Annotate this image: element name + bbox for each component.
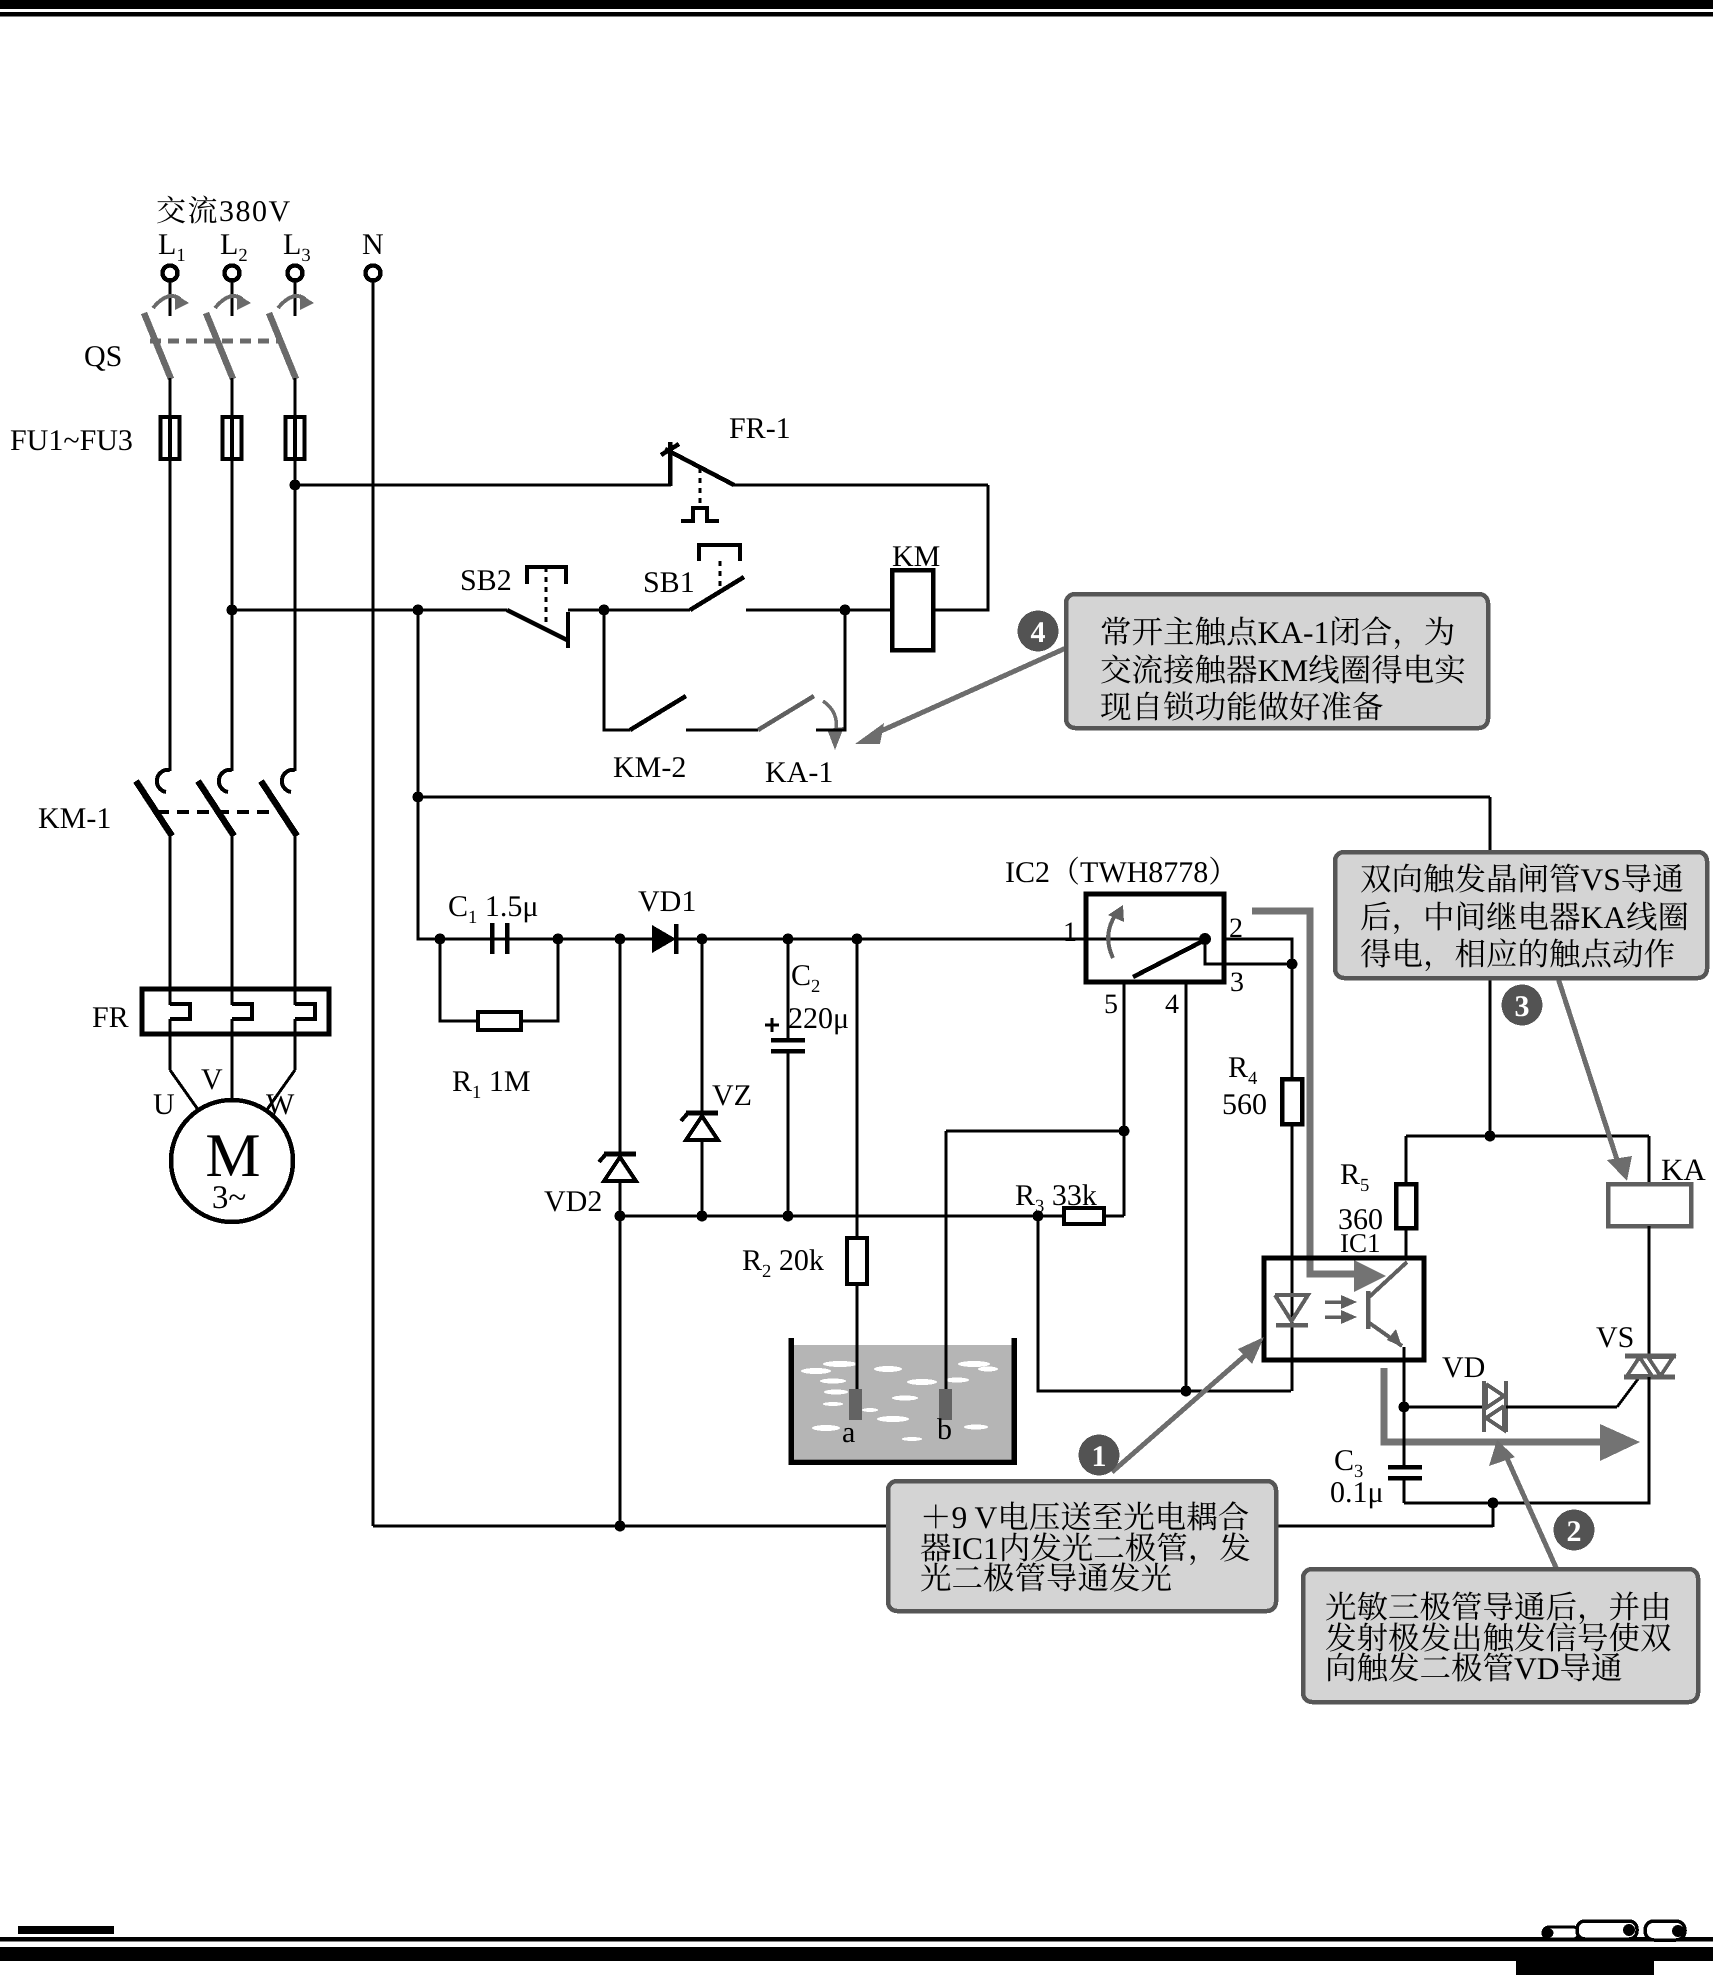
svg-text:SB2: SB2: [460, 564, 512, 597]
svg-text:560: 560: [1222, 1088, 1267, 1121]
svg-text:VD: VD: [1442, 1351, 1485, 1384]
resistor R4: [1282, 1079, 1302, 1124]
capacitor C1: [490, 923, 495, 954]
wire SB1 to KM coil: [746, 609, 892, 612]
wire KM-1 pole 2 to FR: [231, 835, 234, 990]
node pins 2-3: [1287, 959, 1298, 970]
pushbutton SB2 (NC): [527, 567, 566, 584]
svg-text:向触发二极管VD导通: 向触发二极管VD导通: [1325, 1644, 1623, 1689]
wire L3 terminal to QS: [294, 280, 297, 316]
contactor KM-1 pole 1: [157, 770, 170, 792]
motor lead W diagonal: [266, 1070, 295, 1111]
wire FR to motor lead 3: [294, 1034, 297, 1070]
svg-text:2: 2: [1567, 1515, 1582, 1548]
switch QS pole 2 blade: [206, 313, 233, 379]
page bottom thin rule: [0, 1937, 1713, 1942]
node C2 rail: [783, 1211, 794, 1222]
svg-text:交流380V: 交流380V: [156, 186, 292, 230]
relay coil KA: [1608, 1184, 1691, 1226]
node C3 bottom line: [1488, 1498, 1499, 1509]
contact KM-2 blade (NO): [630, 696, 686, 730]
wire left rail corner to C1: [418, 937, 557, 939]
wire FR to motor lead 1: [169, 1034, 172, 1070]
resistor R2 branch: [856, 939, 859, 1238]
wire IC2 pin3: [1224, 963, 1292, 966]
diac VD: [1482, 1381, 1486, 1432]
QS pole 3 rotation arrow: [278, 296, 305, 308]
zener VD2: [604, 1152, 636, 1157]
node VD2 rail: [615, 1211, 626, 1222]
svg-text:SB1: SB1: [643, 566, 695, 599]
zener VD2 branch: [619, 939, 622, 1157]
wire L1 terminal to QS: [169, 280, 172, 316]
IC2 box: [1086, 894, 1224, 982]
electrode b: [939, 1389, 952, 1420]
contactor KM-1 pole 2: [219, 770, 232, 792]
wire L2 terminal to QS: [231, 280, 234, 316]
bottom rail: [373, 1525, 1493, 1528]
motor lead U diagonal: [170, 1070, 199, 1111]
IC1 phototransistor collector: [1368, 1262, 1407, 1298]
svg-text:得电，相应的触点动作: 得电，相应的触点动作: [1360, 930, 1675, 975]
IC2 internal step to pin3: [1205, 939, 1224, 964]
callout 4 pointer arrow: [872, 648, 1066, 735]
svg-text:1: 1: [1063, 917, 1077, 948]
motor lead V down: [231, 1070, 234, 1100]
wire electrode b in water: [945, 1344, 948, 1392]
wire electrode b line: [946, 1130, 1124, 1133]
water in tank: [793, 1345, 1012, 1459]
node IC2 pin4 junction: [1181, 1386, 1192, 1397]
svg-text:QS: QS: [84, 340, 122, 373]
svg-text:R5: R5: [1340, 1158, 1369, 1196]
wire electrode a in water: [856, 1344, 859, 1392]
svg-text:VZ: VZ: [712, 1079, 752, 1112]
node left rail top: [413, 605, 424, 616]
highlight path IC2 pin2 to IC1: [1252, 911, 1354, 1274]
resistor R1 branch: [440, 939, 478, 1021]
capacitor C2 (electrolytic): [771, 1038, 805, 1043]
wire IC2 pin4 down: [1185, 982, 1188, 1391]
fuse FU2: [230, 417, 234, 459]
wire IC2 pin2: [1224, 939, 1292, 964]
node R2 branch: [852, 934, 863, 945]
svg-text:FU1~FU3: FU1~FU3: [10, 424, 133, 457]
wire SB2 to SB1: [568, 609, 690, 612]
wire corner to KA coil: [1648, 1136, 1651, 1184]
terminal circle L2: [225, 266, 240, 281]
svg-text:4: 4: [1165, 989, 1179, 1020]
svg-text:FR: FR: [92, 1001, 129, 1034]
wire QS to fuse L3: [294, 378, 297, 417]
wire R5 to IC1 collector: [1405, 1228, 1408, 1259]
decor scroll left: [1543, 1927, 1579, 1939]
svg-text:VD2: VD2: [544, 1185, 602, 1218]
wire VD2 to rail: [619, 1181, 622, 1216]
IC1 LED: [1275, 1295, 1308, 1321]
FR heater element 2: [230, 989, 233, 1005]
zener VZ: [686, 1111, 718, 1116]
svg-text:KA-1: KA-1: [765, 756, 833, 789]
IC1 phototransistor emitter: [1368, 1322, 1402, 1346]
svg-text:U: U: [153, 1088, 175, 1121]
svg-text:0.1μ: 0.1μ: [1330, 1476, 1384, 1509]
svg-text:现自锁功能做好准备: 现自锁功能做好准备: [1100, 683, 1384, 728]
thermal relay FR box: [142, 989, 329, 1034]
node L2 control tap: [227, 605, 238, 616]
svg-text:R2 20k: R2 20k: [742, 1244, 824, 1282]
IC2 internal input line: [1086, 938, 1205, 941]
callout 2 number circle: [1554, 1510, 1595, 1551]
terminal circle L1: [163, 266, 178, 281]
capacitor C2 plus: [765, 1024, 779, 1027]
wire R4 to IC1 LED: [1291, 1124, 1294, 1391]
FR heater element 1: [168, 989, 171, 1005]
page bottom thick rule: [0, 1947, 1713, 1961]
motor M circle: [171, 1100, 293, 1222]
callout 2 pointer arrow: [1506, 1456, 1558, 1572]
resistor R3: [1038, 1215, 1064, 1218]
wire right rail down (behind callout 3): [1489, 797, 1492, 1136]
wire C3 to bottom line: [1403, 1478, 1406, 1503]
node top rail junction: [413, 792, 424, 803]
svg-text:KM-1: KM-1: [38, 802, 111, 835]
IC2 internal node: [1199, 933, 1211, 945]
svg-text:VS: VS: [1596, 1321, 1634, 1354]
fuse FU1: [168, 417, 172, 459]
resistor R2: [847, 1238, 867, 1284]
node R3 left: [1033, 1211, 1044, 1222]
node KA-1 branch rejoin: [840, 605, 851, 616]
capacitor C2 branch: [787, 939, 790, 1038]
water sparkle marks: [823, 1361, 857, 1367]
KM-1 linkage dashed bar: [157, 810, 277, 814]
page bottom short dash: [18, 1926, 114, 1934]
wire L2 tap to SB2: [232, 609, 507, 612]
wire right corner down to KM coil line: [933, 485, 988, 610]
wire fuse FU2 to KM-1: [231, 459, 234, 771]
wire KA-1 up to node: [816, 610, 845, 730]
svg-text:b: b: [937, 1413, 952, 1446]
electrode a: [849, 1389, 862, 1420]
wire IC1 emitter down: [1403, 1347, 1406, 1407]
svg-text:L2: L2: [220, 228, 248, 266]
wire VZ to rail: [701, 1140, 704, 1216]
svg-text:3~: 3~: [212, 1180, 246, 1216]
wire fuse FU3 to KM-1: [294, 459, 297, 771]
callout 3 pointer arrow: [1558, 978, 1621, 1172]
svg-text:R4: R4: [1228, 1051, 1257, 1089]
svg-text:5: 5: [1104, 989, 1118, 1020]
wire control tap down left rail: [417, 610, 420, 938]
capacitor C3: [1388, 1465, 1422, 1470]
wire VD2 node to bottom rail: [619, 1216, 622, 1526]
terminal circle N: [366, 266, 381, 281]
svg-text:220μ: 220μ: [788, 1002, 849, 1035]
node VD2 branch: [615, 934, 626, 945]
triac VS: [1625, 1354, 1676, 1359]
svg-text:FR-1: FR-1: [729, 412, 791, 445]
callout 1 box: [888, 1481, 1276, 1611]
fuse FU3: [293, 417, 297, 459]
wire QS to fuse L1: [169, 378, 172, 417]
svg-text:IC1: IC1: [1340, 1228, 1381, 1258]
switch QS pole 1 blade: [144, 313, 171, 379]
wire left corner to R5: [1405, 1136, 1408, 1184]
highlight path IC1 emitter to VS: [1384, 1368, 1600, 1442]
switch QS pole 3 blade: [269, 313, 296, 379]
page top thin rule: [0, 12, 1713, 17]
callout 4 box: [1066, 594, 1488, 728]
node C2 branch: [783, 934, 794, 945]
QS linkage dashed bar: [150, 339, 281, 344]
pushbutton SB1 (NO): [699, 545, 740, 561]
wire KM-1 pole 1 to FR: [169, 835, 172, 990]
wire C1 to VD1: [507, 938, 652, 941]
svg-text:VD1: VD1: [638, 885, 696, 918]
svg-text:R1 1M: R1 1M: [452, 1065, 531, 1103]
wire jog to bottom rail: [1492, 1503, 1495, 1527]
wire fuse FU1 to KM-1: [169, 459, 172, 771]
wire R3 node down-left around: [1038, 1216, 1291, 1391]
callout 1 pointer arrow: [1112, 1353, 1248, 1472]
node L3 control tap: [290, 480, 301, 491]
node pin5 junction: [1119, 1126, 1130, 1137]
node emitter to VD: [1399, 1402, 1410, 1413]
zener VZ branch: [701, 939, 704, 1116]
svg-text:N: N: [362, 228, 384, 261]
svg-text:V: V: [201, 1063, 223, 1096]
callout 1 number circle: [1079, 1435, 1120, 1476]
IC2 internal switch blade: [1133, 941, 1203, 977]
mid rail: [620, 1215, 1038, 1218]
wire b down to electrode: [945, 1131, 948, 1390]
wire emitter node to VD: [1404, 1406, 1482, 1409]
wire FR to motor lead 2: [231, 1034, 234, 1070]
page bottom corner tab: [1516, 1947, 1654, 1975]
optocoupler IC1 box: [1264, 1258, 1424, 1360]
wire top rail to right: [418, 796, 1490, 799]
callout 3 number circle: [1502, 985, 1543, 1026]
node KM-2 branch: [599, 605, 610, 616]
FR heater element 3: [293, 989, 296, 1005]
callout 2 box: [1303, 1569, 1698, 1702]
contact KA-1 closing arrow: [823, 701, 836, 731]
thermal contact FR-1: [668, 442, 673, 486]
wire branch down to KM-2: [604, 610, 630, 730]
contact KA-1 blade (NO, gray): [758, 696, 814, 730]
contactor KM-1 pole 3: [282, 770, 295, 792]
node KA line: [1485, 1131, 1496, 1142]
svg-text:a: a: [842, 1416, 855, 1449]
svg-text:R3 33k: R3 33k: [1015, 1179, 1097, 1217]
QS pole 2 rotation arrow: [215, 296, 242, 308]
IC1 light arrow 2: [1325, 1315, 1343, 1319]
QS pole 1 rotation arrow: [153, 296, 180, 308]
node VZ rail: [697, 1211, 708, 1222]
IC1 phototransistor base: [1366, 1291, 1371, 1329]
IC2 internal arrow: [1108, 914, 1116, 958]
wire IC2 pin5 down: [1123, 982, 1126, 1216]
wire KM-1 pole 3 to FR: [294, 835, 297, 990]
wire C2 to rail: [787, 1051, 790, 1216]
svg-text:KM-2: KM-2: [613, 751, 686, 784]
wire R2 to electrode a: [856, 1284, 859, 1390]
wire pins2-3 down to R4: [1291, 964, 1294, 1079]
wire KA top line: [1406, 1135, 1649, 1138]
page top thick rule: [0, 0, 1713, 9]
svg-text:4: 4: [1031, 616, 1046, 649]
svg-text:光二极管导通发光: 光二极管导通发光: [920, 1554, 1172, 1599]
wire FR-1 to right corner: [733, 484, 988, 487]
node bottom rail VD2: [615, 1521, 626, 1532]
decor scroll right: [1645, 1921, 1685, 1940]
svg-text:3: 3: [1515, 990, 1530, 1023]
svg-text:L3: L3: [283, 228, 311, 266]
contactor coil KM: [892, 570, 933, 650]
terminal circle L3: [288, 266, 303, 281]
wire emitter node to C3: [1403, 1407, 1406, 1465]
IC1 light arrow 1: [1325, 1300, 1343, 1304]
wire KM-2 to KA-1: [686, 729, 758, 732]
wire VD to VS gate: [1506, 1406, 1617, 1409]
wire VD1 to IC2 pin1: [676, 938, 1086, 941]
svg-text:L1: L1: [158, 228, 186, 266]
wire QS to fuse L2: [231, 378, 234, 417]
wire KA coil to VS: [1648, 1226, 1651, 1355]
callout 4 number circle: [1018, 611, 1059, 652]
svg-text:IC2（TWH8778）: IC2（TWH8778）: [1005, 856, 1238, 889]
node R1 right branch: [553, 934, 564, 945]
node R1 left branch: [435, 934, 446, 945]
diode VD1: [652, 925, 676, 953]
callout 3 box: [1335, 852, 1707, 978]
tank walls: [791, 1338, 1014, 1462]
svg-text:C1 1.5μ: C1 1.5μ: [448, 890, 538, 928]
wire VS down to corner: [1404, 1377, 1649, 1503]
resistor R5: [1396, 1184, 1416, 1228]
node VZ branch: [697, 934, 708, 945]
svg-text:1: 1: [1092, 1440, 1107, 1473]
wire L3 tap to FR-1: [295, 484, 671, 487]
wire N terminal down to bottom rail corner: [372, 280, 375, 1526]
svg-text:3: 3: [1230, 967, 1244, 998]
svg-text:C2: C2: [791, 959, 820, 997]
